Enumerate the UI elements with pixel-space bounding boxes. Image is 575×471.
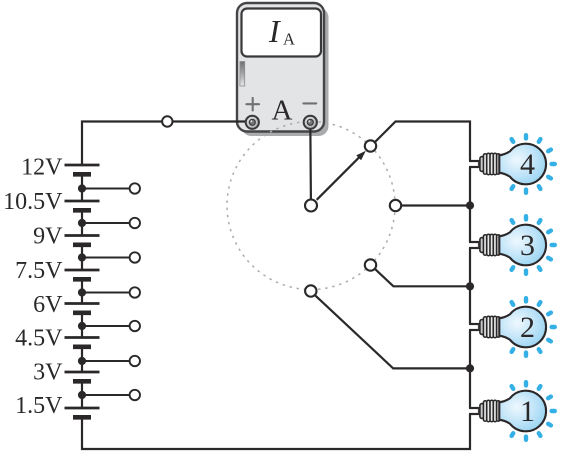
node: bus junction dot for lamp 1 feed — [466, 364, 474, 372]
lamp L4 number label — [520, 148, 535, 181]
lamp L3 glass envelope — [499, 225, 546, 266]
ammeter A label — [272, 95, 293, 127]
wire: ammeter - terminal down to switch pole — [309, 122, 312, 199]
node: open tap terminal 2 — [130, 218, 140, 228]
battery cell 3 (9V tap level) — [65, 236, 100, 245]
label 1.5V — [15, 393, 63, 419]
node: open tap terminal 4 — [130, 287, 140, 297]
svg-text:12V: 12V — [21, 154, 63, 180]
wire: switch contact 3 to bus junction — [401, 204, 470, 206]
node: battery tap junction dot 6 — [78, 357, 86, 365]
wire: right bus segment between lamp 2 and lamp 1 — [469, 330, 471, 408]
svg-text:1: 1 — [520, 395, 535, 428]
label 9V — [33, 223, 63, 249]
label 4.5V — [15, 325, 63, 351]
svg-text:A: A — [283, 29, 295, 48]
lamp L2 lead prongs — [469, 324, 480, 330]
wire: switch contact 2 to bus junction — [375, 269, 470, 286]
node: bus junction dot for lamp 2 feed — [466, 282, 474, 290]
node: battery tap junction dot 2 — [78, 219, 86, 227]
wire: battery link cell 7 to cell 8 — [81, 381, 83, 408]
node: open junction terminal on top wire — [162, 116, 172, 126]
ammeter minus sign — [303, 102, 316, 104]
rotary switch contact 4 — [365, 140, 376, 151]
lamp L3 screw base ridges — [483, 234, 500, 255]
lamp L1 screw base ridges — [483, 400, 500, 421]
ammeter U1 body — [237, 3, 329, 136]
lamp L4 lead prongs — [469, 161, 480, 167]
svg-text:1.5V: 1.5V — [15, 393, 63, 419]
wire: tap lead 5 — [82, 325, 130, 327]
rotary switch contact 3 — [390, 200, 401, 211]
battery cell 2 (10.5V tap level) — [65, 201, 100, 210]
battery cell 4 (7.5V tap level) — [65, 270, 100, 279]
node: battery tap junction dot 4 — [78, 288, 86, 296]
lamp L4 glow rays — [512, 135, 555, 193]
node: battery tap junction dot 5 — [78, 322, 86, 330]
lamp L2 screw base collar — [480, 320, 484, 335]
ammeter terminal post (+) — [246, 116, 259, 129]
rotary switch wiper arrow — [317, 151, 366, 200]
wire: battery link cell 4 to cell 5 — [81, 279, 83, 303]
label 6V — [33, 292, 63, 318]
lamp L3 screw base collar — [480, 238, 484, 253]
wire: battery link cell 3 to cell 4 — [81, 245, 83, 270]
wire: selected contact up to top-right corner run — [375, 122, 470, 162]
ammeter terminal post (-) — [304, 116, 317, 129]
svg-text:3V: 3V — [33, 359, 63, 385]
node: open tap terminal 5 — [130, 321, 140, 331]
lamp L2 base contact tip — [478, 324, 483, 329]
wire: right bus segment between lamp 4 and lamp 3 — [469, 167, 471, 242]
lamp L2 glow rays — [512, 298, 555, 356]
lamp L1 lead prongs — [469, 408, 480, 414]
lamp L1 glass envelope — [499, 391, 546, 432]
ammeter display window — [242, 9, 322, 57]
wire: tap lead 3 — [82, 257, 130, 259]
lamp L3 lead prongs — [469, 242, 480, 248]
ammeter display reading I_A — [268, 13, 295, 49]
node: battery tap junction dot 7 — [78, 391, 86, 399]
wire: battery link cell 2 to cell 3 — [81, 210, 83, 235]
svg-text:4.5V: 4.5V — [15, 325, 63, 351]
lamp L1 screw base collar — [480, 404, 484, 419]
rotary switch S1 dial (dashed travel circle) — [227, 122, 395, 290]
lamp L2 number label — [520, 311, 535, 344]
svg-text:I: I — [268, 13, 281, 49]
lamp L3 glow rays — [512, 216, 555, 274]
label 3V — [33, 359, 63, 385]
wire: tap lead 1 — [82, 188, 130, 190]
lamp L4 screw base ridges — [483, 153, 500, 174]
node: battery tap junction dot 3 — [78, 253, 86, 261]
svg-text:9V: 9V — [33, 223, 63, 249]
lamp L2 glass envelope — [499, 307, 546, 348]
lamp L1 glow rays — [512, 382, 555, 440]
lamp L2 screw base ridges — [483, 316, 500, 337]
svg-text:A: A — [272, 95, 293, 127]
wire: battery link cell 1 to cell 2 — [81, 174, 83, 201]
node: bus junction dot for lamp 3 feed — [466, 201, 474, 209]
rotary switch pole (center node) — [305, 200, 317, 212]
lamp L3 number label — [520, 229, 535, 262]
lamp L4 base contact tip — [478, 161, 483, 166]
node: open tap terminal 3 — [130, 252, 140, 262]
svg-text:10.5V: 10.5V — [3, 189, 63, 215]
node: battery tap junction dot 1 — [78, 184, 86, 192]
battery cell 7 (3V tap level) — [65, 372, 100, 381]
lamp L1 number label — [520, 395, 535, 428]
wire: tap lead 6 — [82, 360, 130, 362]
wire: tap lead 2 — [82, 222, 130, 224]
wire: top run from battery positive to ammeter + terminal — [82, 122, 252, 166]
svg-text:3: 3 — [520, 229, 535, 262]
wire: tap lead 4 — [82, 292, 130, 294]
lamp L4 screw base collar — [480, 157, 484, 172]
rotary switch contact 2 — [365, 259, 376, 270]
wire: battery link cell 6 to cell 7 — [81, 347, 83, 372]
node: open tap terminal 1 — [130, 183, 140, 193]
wire: right bus segment between lamp 3 and lamp 2 — [469, 248, 471, 324]
label 10.5V — [3, 189, 63, 215]
lamp L3 base contact tip — [478, 242, 483, 247]
battery cell 1 (12V tap level) — [65, 165, 100, 174]
lamp L1 base contact tip — [478, 408, 483, 413]
wire: tap lead 7 — [82, 394, 130, 396]
battery cell 5 (6V tap level) — [65, 304, 100, 313]
node: open tap terminal 6 — [130, 356, 140, 366]
svg-text:7.5V: 7.5V — [15, 258, 63, 284]
label 7.5V — [15, 258, 63, 284]
wire: switch contact 1 to bus junction — [315, 295, 470, 368]
ammeter plus sign — [246, 98, 259, 111]
svg-text:6V: 6V — [33, 292, 63, 318]
rotary switch contact 1 — [305, 285, 316, 296]
ammeter side slot — [240, 62, 245, 87]
wire: battery link cell 5 to cell 6 — [81, 313, 83, 338]
label 12V — [21, 154, 63, 180]
node: open tap terminal 7 — [130, 390, 140, 400]
battery cell 8 (1.5V tap level) — [65, 408, 100, 417]
wire: right bus below lamp 1 and bottom return run to battery negative — [82, 414, 470, 449]
battery cell 6 (4.5V tap level) — [65, 338, 100, 347]
svg-text:2: 2 — [520, 311, 535, 344]
svg-text:4: 4 — [520, 148, 535, 181]
lamp L4 glass envelope — [499, 144, 546, 185]
